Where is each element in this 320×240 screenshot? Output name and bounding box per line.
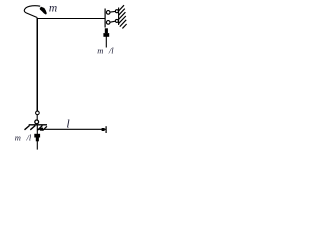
ground hatching left of pin [25, 126, 36, 130]
ground line bottom support [29, 124, 47, 126]
reaction arrow up m/l [103, 28, 109, 47]
wire beam top horizontal [37, 17, 105, 19]
wall hatching right support [119, 5, 127, 28]
dimension square right [102, 128, 105, 131]
dimension end tick right [105, 126, 107, 133]
wall line right support [118, 8, 120, 26]
link pin circle upper-left [106, 11, 110, 15]
wire column vertical [36, 18, 38, 111]
link lower [110, 21, 115, 22]
dimension square left [40, 128, 43, 131]
svg-text:m /l: m /l [15, 133, 32, 143]
support bar at beam right end [104, 9, 106, 28]
reaction arrow down m/l [34, 125, 40, 150]
pin circle bottom support [35, 120, 39, 124]
link pin circle lower-left [106, 21, 110, 25]
link pin circle lower-right [115, 19, 118, 22]
dimension line l [38, 128, 106, 130]
link upper [110, 10, 115, 13]
svg-text:m: m [49, 3, 57, 15]
wire column below hinge [36, 115, 38, 120]
link pin circle upper-right [115, 10, 118, 13]
moment arc m at corner [24, 6, 47, 18]
svg-text:m /l: m /l [97, 46, 114, 56]
hinge circle on column [36, 111, 40, 115]
ground hatching right of pin [38, 126, 47, 131]
